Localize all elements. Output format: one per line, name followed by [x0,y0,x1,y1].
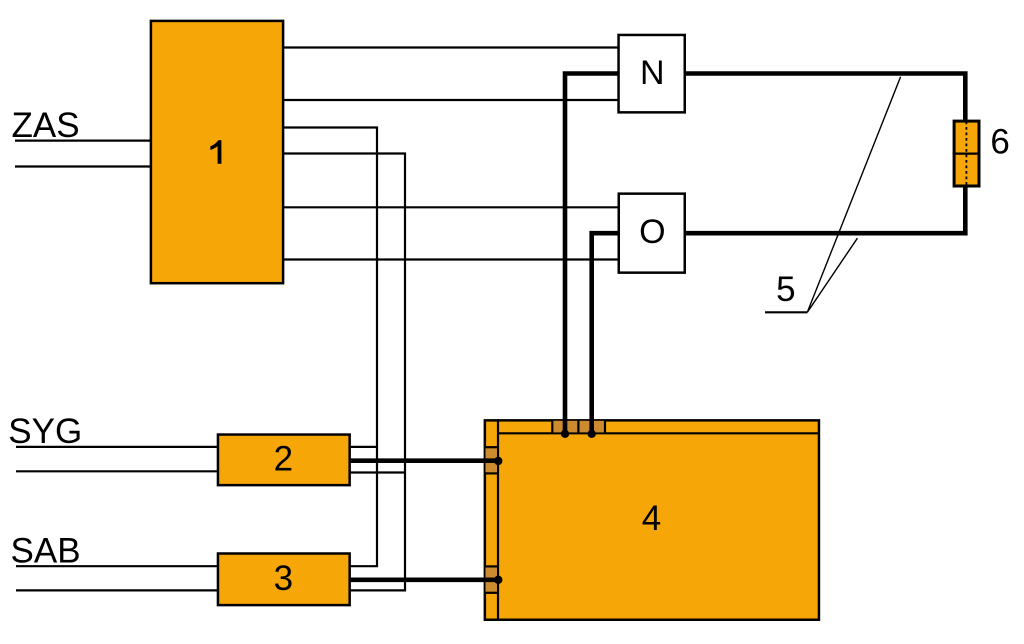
svg-text:2: 2 [274,440,293,479]
svg-text:6: 6 [990,122,1009,161]
svg-text:4: 4 [642,499,661,538]
svg-text:3: 3 [274,559,293,598]
svg-text:SYG: SYG [8,412,82,451]
svg-text:O: O [639,213,665,251]
svg-text:5: 5 [776,270,795,309]
svg-text:ZAS: ZAS [12,106,80,145]
svg-text:SAB: SAB [11,532,81,571]
svg-text:N: N [640,54,665,92]
